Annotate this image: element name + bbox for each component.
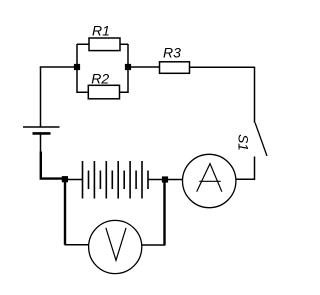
svg-text:R1: R1 — [92, 23, 110, 39]
svg-text:R3: R3 — [163, 45, 181, 61]
svg-text:S1: S1 — [236, 134, 251, 151]
svg-text:R2: R2 — [91, 71, 109, 87]
